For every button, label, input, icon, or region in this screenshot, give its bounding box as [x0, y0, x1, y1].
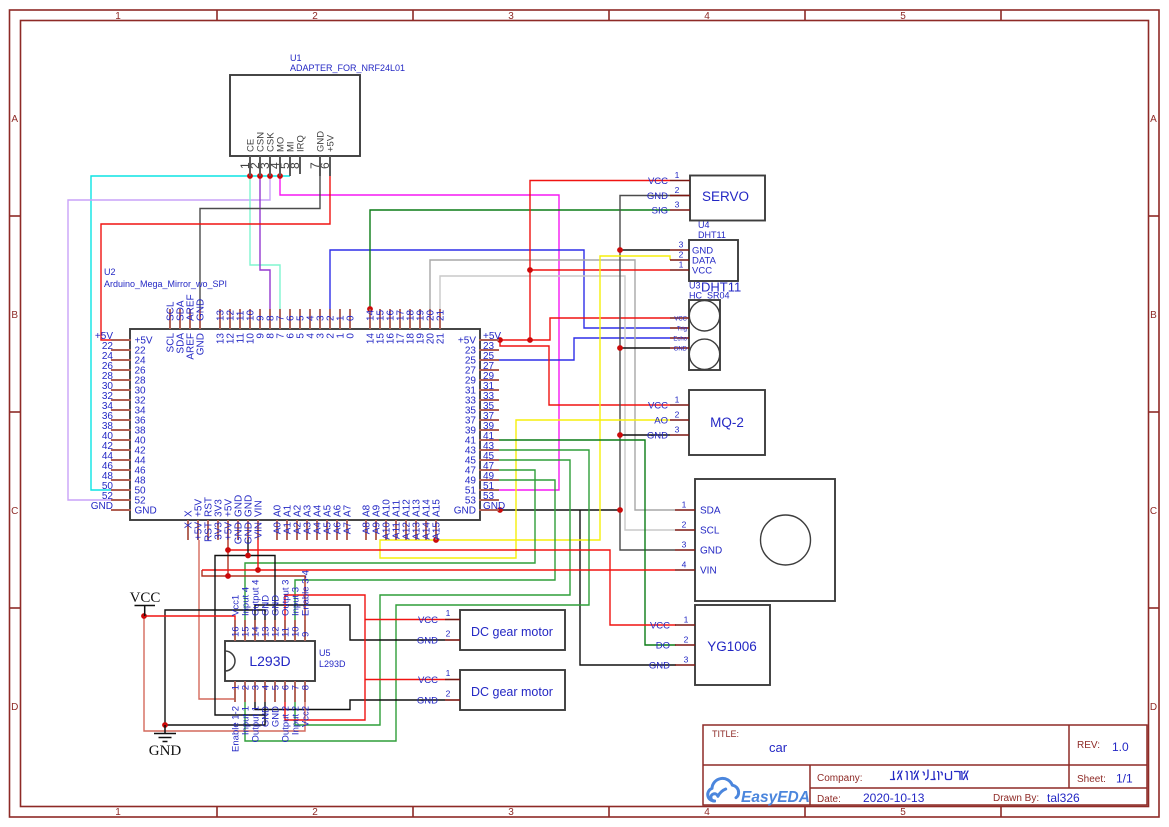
- svg-text:DC gear motor: DC gear motor: [471, 625, 553, 639]
- svg-text:0: 0: [346, 315, 357, 321]
- wire red branch to DHT11 VCC and SERVO VCC: [530, 181, 670, 341]
- wire purple U1.2-CSN to U2 pin8: [260, 176, 270, 310]
- U2 bottom pin A15: [435, 520, 437, 540]
- svg-text:VCC: VCC: [692, 266, 712, 277]
- U1 pin 4 MO: [279, 156, 281, 176]
- svg-text:U2: U2: [104, 267, 116, 277]
- L293D bottom pin 7 Input 2: [294, 681, 296, 702]
- U2 left pin +5V: [111, 339, 131, 341]
- svg-text:2: 2: [675, 410, 680, 420]
- U2 top pin 7: [279, 309, 281, 329]
- svg-text:U5: U5: [319, 648, 331, 658]
- svg-text:GND: GND: [454, 506, 476, 517]
- U2 top pin AREF: [189, 309, 191, 329]
- wire black U2 right GND rail: [499, 509, 620, 511]
- L293D bottom pin 4 GND: [264, 681, 266, 702]
- U2 right pin GND: [479, 509, 499, 511]
- svg-text:VIN: VIN: [254, 522, 265, 539]
- svg-text:A: A: [11, 114, 18, 125]
- U2 right pin 33: [479, 399, 499, 401]
- svg-text:GND: GND: [149, 743, 182, 759]
- U1 pin 7 GND: [319, 156, 321, 176]
- U2 top pin 8: [269, 309, 271, 329]
- wire red U2 bottom +5V#2 to L293D pin1 Enable1-2: [199, 540, 235, 699]
- wire red VCC symbol to L293D pin16 Vcc1: [144, 616, 235, 620]
- svg-text:GND: GND: [91, 501, 113, 512]
- wire brown-red +5V rail to L293D pin9 Enable3-4: [228, 576, 305, 620]
- svg-text:ADAPTER_FOR_NRF24L01: ADAPTER_FOR_NRF24L01: [290, 63, 405, 73]
- svg-text:AO: AO: [654, 416, 668, 427]
- L293D bottom pin 5 GND: [274, 681, 276, 702]
- svg-text:3: 3: [675, 200, 680, 210]
- svg-text:REV:: REV:: [1077, 740, 1100, 751]
- U2 right pin 29: [479, 379, 499, 381]
- svg-text:U1: U1: [290, 53, 302, 63]
- svg-text:1: 1: [446, 668, 451, 678]
- U2 left pin 26: [111, 369, 131, 371]
- motor1 pin 2 GND: [445, 639, 460, 641]
- U2 left pin 38: [111, 429, 131, 431]
- L293D bottom pin 1 Enable 1-2: [234, 681, 236, 702]
- svg-text:GND: GND: [483, 501, 505, 512]
- L293D top pin 15 Input 4: [244, 620, 246, 641]
- svg-text:MQ-2: MQ-2: [710, 415, 744, 430]
- svg-text:Date:: Date:: [817, 794, 841, 805]
- U2 left pin 22: [111, 349, 131, 351]
- svg-text:YG1006: YG1006: [707, 639, 757, 654]
- svg-text:8: 8: [288, 162, 302, 169]
- U3 pin Trig: [670, 327, 689, 329]
- svg-text:Enable 3-4: Enable 3-4: [301, 570, 312, 616]
- svg-text:SDA: SDA: [700, 506, 721, 517]
- U4 pin 1 VCC: [670, 269, 689, 271]
- svg-text:GND: GND: [647, 191, 668, 202]
- wire black L293D pin13 GND to GND symbol: [165, 610, 265, 725]
- U2 top pin 15: [379, 309, 381, 329]
- U4 pin 2 DATA: [670, 259, 689, 261]
- L293D bottom pin 3 Output 1: [254, 681, 256, 702]
- svg-text:2: 2: [684, 635, 689, 645]
- L293D top pin 9 Enable 3-4: [304, 620, 306, 641]
- U2 bottom pin VIN: [257, 520, 259, 540]
- module MQ-2: [689, 390, 765, 455]
- U2 left pin 34: [111, 409, 131, 411]
- YG1006 pin 1 VCC: [675, 624, 695, 626]
- L293D top pin 14 Output 4: [254, 620, 256, 641]
- wire black L293D pin3 Output1 to motor2 GND: [255, 700, 445, 710]
- svg-text:VIN: VIN: [254, 500, 265, 517]
- module YG1006: [695, 605, 770, 685]
- svg-text:VIN: VIN: [700, 566, 717, 577]
- svg-text:A7: A7: [343, 504, 354, 517]
- svg-text:3: 3: [508, 11, 514, 22]
- svg-text:VCC: VCC: [648, 401, 668, 412]
- wire blue U2 pin25 to HC_SR04 Echo: [499, 338, 670, 360]
- svg-text:IRQ: IRQ: [296, 135, 307, 152]
- gyroscope pin 2 SCL: [675, 529, 695, 531]
- svg-text:DC gear motor: DC gear motor: [471, 685, 553, 699]
- U2 top pin SDA: [179, 309, 181, 329]
- U2 top pin 1: [339, 309, 341, 329]
- U2 left pin 36: [111, 419, 131, 421]
- U2 bottom pin A6: [336, 520, 338, 540]
- U4 pin 3 GND: [670, 249, 689, 251]
- wire red U2 VIN pin drop: [257, 540, 259, 570]
- wire red branch motor1 VCC: [365, 619, 445, 621]
- U2 bottom pin 3V3: [217, 520, 219, 540]
- U2 bottom pin A1: [286, 520, 288, 540]
- U2 bottom pin A2: [296, 520, 298, 540]
- U2 bottom pin A12: [405, 520, 407, 540]
- svg-text:U4: U4: [698, 220, 710, 230]
- junction dots: [247, 173, 253, 179]
- IC U5 L293D body: [225, 641, 315, 681]
- module DC gear motor 1: [460, 610, 565, 650]
- U2 right pin 45: [479, 459, 499, 461]
- U2 right pin +5V: [479, 339, 499, 341]
- L293D top pin 11 Output 3: [284, 620, 286, 641]
- L293D bottom pin 6 Output 2: [284, 681, 286, 702]
- wire green U2 pin45 to L293D pin7 Input2: [295, 460, 570, 725]
- wire green U2 pin49 to L293D pin10 Input3: [295, 480, 555, 620]
- U2 left pin 32: [111, 399, 131, 401]
- wire black U1.7-GND to U2 top GND: [200, 176, 320, 310]
- wire yellow A15 to MQ-2 AO: [380, 420, 670, 558]
- svg-text:GND: GND: [647, 431, 668, 442]
- U2 bottom pin A11: [395, 520, 397, 540]
- IC U1 ADAPTER_FOR_NRF24L01: [230, 75, 360, 156]
- svg-text:VCC: VCC: [648, 176, 668, 187]
- svg-text:GND: GND: [649, 661, 670, 672]
- motor2 pin 1 VCC: [445, 679, 460, 681]
- svg-text:GND: GND: [674, 347, 688, 353]
- svg-text:Echo: Echo: [673, 337, 687, 343]
- svg-text:1: 1: [675, 170, 680, 180]
- svg-text:Arduino_Mega_Mirror_wo_SPI: Arduino_Mega_Mirror_wo_SPI: [104, 279, 227, 289]
- U2 top pin 5: [299, 309, 301, 329]
- U2 left pin 48: [111, 479, 131, 481]
- U2 bottom pin A9: [375, 520, 377, 540]
- svg-text:1/1: 1/1: [1116, 772, 1133, 786]
- svg-text:2: 2: [675, 185, 680, 195]
- wire green U2 pin47 to L293D pin15 Input4: [245, 470, 535, 620]
- svg-text:VCC: VCC: [650, 621, 670, 632]
- wire black to YG1006 GND: [580, 510, 676, 665]
- U2 left pin 30: [111, 389, 131, 391]
- svg-text:21: 21: [436, 309, 447, 321]
- U2 left pin 46: [111, 469, 131, 471]
- title block: [703, 725, 1147, 805]
- wire black U2 GND pin drop: [247, 540, 249, 556]
- svg-text:GND: GND: [417, 636, 438, 647]
- wire black L293D pin14 Output4 to motor1 GND: [255, 605, 445, 640]
- svg-text:1: 1: [115, 807, 121, 818]
- svg-text:Vcc2: Vcc2: [301, 706, 312, 727]
- gyroscope pin 1 SDA: [675, 509, 695, 511]
- wire green U2 pin43 to L293D pin2 Input1: [245, 450, 589, 741]
- svg-text:Sheet:: Sheet:: [1077, 774, 1106, 785]
- U2 top pin 6: [289, 309, 291, 329]
- svg-text:VCC: VCC: [418, 615, 438, 626]
- svg-text:car: car: [769, 740, 788, 755]
- U2 right pin 27: [479, 369, 499, 371]
- svg-text:VCC: VCC: [418, 675, 438, 686]
- U2 right pin 47: [479, 469, 499, 471]
- U2 right pin 41: [479, 439, 499, 441]
- svg-text:DHT11: DHT11: [698, 230, 726, 240]
- U2 right pin 49: [479, 479, 499, 481]
- IC U2 Arduino_Mega_Mirror_wo_SPI: [130, 329, 480, 520]
- U2 top pin 11: [239, 309, 241, 329]
- wire red U1.6-+5V to U2 left +5V: [101, 176, 330, 340]
- U2 left pin 52: [111, 499, 131, 501]
- YG1006 pin 3 GND: [675, 664, 695, 666]
- svg-text:HC_SR04: HC_SR04: [689, 291, 730, 301]
- motor2 pin 2 GND: [445, 699, 460, 701]
- U1 pin 6 +5V: [329, 156, 331, 176]
- wire blue U2 top pin2 to HC_SR04 Trig: [330, 250, 670, 328]
- svg-text:6: 6: [318, 162, 332, 169]
- wire red VCC symbol to L293D pin8 Vcc2: [144, 616, 305, 731]
- wire pale-green U1.1-CE to U2 pin7: [250, 176, 280, 310]
- svg-text:A7: A7: [343, 522, 354, 535]
- motor1 pin 1 VCC: [445, 619, 460, 621]
- L293D bottom pin 2 Input 1: [244, 681, 246, 702]
- wire black MQ-2 GND branch: [620, 434, 670, 436]
- wire dark-green U2 top pin14 to SERVO SIG: [370, 210, 670, 310]
- U1 pin 8 IRQ: [299, 156, 301, 174]
- U2 bottom pin A10: [385, 520, 387, 540]
- svg-text:tal326: tal326: [1047, 791, 1080, 805]
- svg-text:21: 21: [436, 333, 447, 345]
- U2 bottom pin A4: [316, 520, 318, 540]
- wire magenta U1.4-MO to U2 pin51: [280, 176, 559, 490]
- svg-text:5: 5: [900, 11, 906, 22]
- wire yellow A15 to DHT11 DATA: [436, 256, 670, 540]
- svg-text:4: 4: [704, 11, 710, 22]
- U2 right pin 39: [479, 429, 499, 431]
- U2 top pin 4: [309, 309, 311, 329]
- svg-text:GND: GND: [135, 506, 157, 517]
- svg-text:2: 2: [446, 689, 451, 699]
- svg-text:TITLE:: TITLE:: [712, 729, 739, 739]
- svg-text:Company:: Company:: [817, 773, 863, 784]
- U2 bottom pin A5: [326, 520, 328, 540]
- svg-text:Drawn By:: Drawn By:: [993, 793, 1039, 804]
- wire red VIN rail to module VIN: [202, 569, 675, 571]
- U2 bottom pin A7: [346, 520, 348, 540]
- U2 right pin 31: [479, 389, 499, 391]
- U2 top pin 0: [349, 309, 351, 329]
- U2 top pin 17: [399, 309, 401, 329]
- U2 bottom pin RST: [207, 520, 209, 540]
- U3 pin Echo: [670, 337, 689, 339]
- svg-text:4: 4: [704, 807, 710, 818]
- U2 left pin 42: [111, 449, 131, 451]
- svg-text:VCC: VCC: [674, 317, 687, 323]
- svg-text:1: 1: [684, 615, 689, 625]
- wire red +5V right pin to HC_SR04 VCC: [499, 318, 670, 340]
- gyroscope pin 4 VIN: [675, 569, 695, 571]
- svg-text:2: 2: [446, 629, 451, 639]
- svg-text:1: 1: [115, 11, 121, 22]
- svg-text:0: 0: [346, 333, 357, 339]
- U1 pin 3 CSK: [269, 156, 271, 176]
- svg-text:SERVO: SERVO: [702, 189, 749, 204]
- U2 top pin 16: [389, 309, 391, 329]
- svg-text:DO: DO: [656, 641, 670, 652]
- wire green U2 pin41 to YG1006 DO: [499, 440, 676, 645]
- wire black GND symbol to L293D pin4: [165, 702, 265, 725]
- U2 right pin 25: [479, 359, 499, 361]
- U2 bottom pin A13: [415, 520, 417, 540]
- svg-text:3: 3: [684, 655, 689, 665]
- svg-text:5: 5: [900, 807, 906, 818]
- svg-text:D: D: [11, 702, 18, 713]
- svg-text:3: 3: [508, 807, 514, 818]
- U2 left pin 50: [111, 489, 131, 491]
- svg-text:3: 3: [682, 540, 687, 550]
- L293D top pin 16 Vcc1: [234, 620, 236, 641]
- svg-text:B: B: [11, 310, 18, 321]
- U1 pin 5 MI: [289, 156, 291, 176]
- svg-text:3: 3: [675, 425, 680, 435]
- U2 top pin 21: [439, 309, 441, 329]
- svg-text:2: 2: [312, 11, 318, 22]
- svg-text:2020-10-13: 2020-10-13: [863, 791, 925, 805]
- U2 right pin 53: [479, 499, 499, 501]
- U3 pin GND: [670, 347, 689, 349]
- U2 bottom pin +5V: [227, 520, 229, 540]
- L293D bottom pin 8 Vcc2: [304, 681, 306, 702]
- YG1006 pin 2 DO: [675, 644, 695, 646]
- svg-text:VCC: VCC: [130, 590, 161, 606]
- svg-text:U3: U3: [689, 281, 701, 291]
- wire red L293D pin11/pin6 outputs to motor VCCs: [285, 595, 365, 720]
- svg-text:+5V: +5V: [326, 134, 337, 152]
- module SERVO: [690, 176, 765, 221]
- U2 top pin 14: [369, 309, 371, 329]
- U2 bottom pin +5V: [197, 520, 199, 540]
- U2 top pin 2: [329, 309, 331, 329]
- U2 top pin 13: [219, 309, 221, 329]
- svg-text:Trig: Trig: [677, 327, 687, 333]
- U2 bottom pin GND: [237, 520, 239, 540]
- U2 left pin 40: [111, 439, 131, 441]
- L293D top pin 10 Input 3: [294, 620, 296, 641]
- svg-text:8: 8: [301, 685, 312, 690]
- module DC gear motor 2: [460, 670, 565, 710]
- U2 top pin 12: [229, 309, 231, 329]
- SERVO pin 3 SIG: [670, 209, 690, 211]
- U2 top pin 20: [429, 309, 431, 329]
- wire black DHT11 GND branch: [620, 249, 670, 251]
- svg-text:1.0: 1.0: [1112, 740, 1129, 754]
- wire red branch motor2 VCC: [365, 679, 445, 681]
- svg-text:9: 9: [301, 632, 312, 637]
- wire dark-gray SERVO GND chain: [620, 196, 690, 551]
- U1 pin 1 CE: [249, 156, 251, 176]
- U2 bottom pin A0: [276, 520, 278, 540]
- gyroscope pin 3 GND: [675, 549, 695, 551]
- U1 pin 2 CSN: [259, 156, 261, 176]
- MQ-2 pin 3 GND: [670, 434, 689, 436]
- U2 right pin 35: [479, 409, 499, 411]
- svg-text:GND: GND: [196, 333, 207, 355]
- U2 bottom pin A3: [306, 520, 308, 540]
- hebrew company name strokes: [891, 770, 969, 780]
- U2 right pin 43: [479, 449, 499, 451]
- U2 left pin GND: [111, 509, 131, 511]
- wire light-gray U2 top pin21 to module SCL: [440, 276, 675, 530]
- wire violet U1.3-CSK to U2 pin52: [68, 176, 270, 500]
- U2 bottom pin A8: [365, 520, 367, 540]
- svg-text:2: 2: [679, 250, 684, 260]
- svg-text:C: C: [1150, 506, 1157, 517]
- SERVO pin 2 GND: [670, 195, 690, 197]
- wire gray U2 top pin20 to module SDA: [430, 260, 675, 510]
- svg-text:GND: GND: [700, 546, 722, 557]
- MQ-2 pin 1 VCC: [670, 404, 689, 406]
- U2 top pin 10: [249, 309, 251, 329]
- svg-text:3: 3: [679, 240, 684, 250]
- L293D top pin 13 GND: [264, 620, 266, 641]
- svg-text:A15: A15: [432, 499, 443, 517]
- U2 top pin 9: [259, 309, 261, 329]
- svg-text:B: B: [1150, 310, 1157, 321]
- svg-text:2: 2: [312, 807, 318, 818]
- U2 top pin SCL: [169, 309, 171, 329]
- U2 bottom pin GND: [247, 520, 249, 540]
- SERVO pin 1 VCC: [670, 180, 690, 182]
- svg-text:2: 2: [682, 520, 687, 530]
- svg-text:1: 1: [675, 395, 680, 405]
- U2 left pin 28: [111, 379, 131, 381]
- U3 pin VCC: [670, 317, 689, 319]
- U2 right pin 51: [479, 489, 499, 491]
- wire cyan U1.5-MI bus to U2 pin50: [91, 176, 290, 490]
- U2 top pin 3: [319, 309, 321, 329]
- svg-text:A: A: [1150, 114, 1157, 125]
- svg-text:SIG: SIG: [652, 206, 668, 217]
- EasyEDA logo: [708, 778, 739, 801]
- svg-text:1: 1: [679, 260, 684, 270]
- svg-text:GND: GND: [417, 696, 438, 707]
- svg-text:EasyEDA: EasyEDA: [741, 789, 810, 806]
- U2 right pin 37: [479, 419, 499, 421]
- svg-text:C: C: [11, 506, 18, 517]
- svg-text:L293D: L293D: [319, 659, 346, 669]
- MQ-2 pin 2 AO: [670, 419, 689, 421]
- U2 top pin GND: [199, 309, 201, 329]
- U2 left pin 44: [111, 459, 131, 461]
- U2 bottom pin X: [187, 520, 189, 540]
- svg-text:SCL: SCL: [700, 526, 720, 537]
- U2 top pin 18: [409, 309, 411, 329]
- wire red branch DHT11 VCC: [530, 269, 670, 271]
- svg-text:4: 4: [682, 560, 687, 570]
- U2 top pin 19: [419, 309, 421, 329]
- svg-text:GND: GND: [196, 299, 207, 321]
- module gyroscope with circle: [695, 479, 835, 601]
- power symbol VCC: [135, 605, 156, 607]
- wire red U2 bottom +5V to YG1006 VCC: [202, 540, 228, 576]
- ground symbol GND: [164, 725, 166, 733]
- L293D top pin 12 GND: [274, 620, 276, 641]
- wire black HC_SR04 GND branch: [620, 347, 670, 349]
- wire black U2 bottom GND to L293D pin12 loop: [215, 556, 275, 716]
- U2 left pin 24: [111, 359, 131, 361]
